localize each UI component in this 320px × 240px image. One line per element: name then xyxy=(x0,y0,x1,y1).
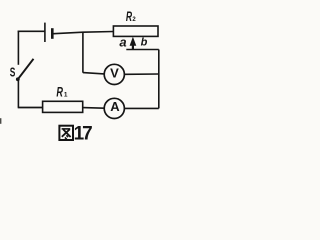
switch S xyxy=(16,59,34,81)
svg-text:R: R xyxy=(56,84,63,99)
wire voltmeter branch vertical xyxy=(82,32,84,72)
ammeter A1 xyxy=(104,98,124,118)
wire slider to right rail xyxy=(126,49,159,51)
wire bottom left to R1 xyxy=(18,107,43,109)
svg-text:S: S xyxy=(10,66,16,80)
wire R1 to ammeter xyxy=(83,107,105,110)
resistor R1 body xyxy=(43,101,83,112)
wire right rail vertical xyxy=(158,50,160,109)
wire battery to rheostat R2 xyxy=(54,32,114,34)
battery B1 xyxy=(45,23,52,42)
rheostat slider arrow xyxy=(130,37,137,50)
svg-text:1: 1 xyxy=(64,91,68,98)
rheostat R2 body xyxy=(113,26,158,36)
caption character 图 (drawn) xyxy=(59,126,73,140)
wire left rail lower xyxy=(17,81,19,108)
svg-text:V: V xyxy=(110,65,119,80)
caption text 17 xyxy=(74,123,93,144)
wire ammeter to right rail xyxy=(125,107,159,109)
wire branch to voltmeter xyxy=(83,73,104,74)
label R1 xyxy=(56,84,68,99)
scan smudge left edge xyxy=(0,118,1,124)
wire top-left horizontal (battery to left rail) xyxy=(18,30,45,32)
svg-text:7: 7 xyxy=(82,123,93,144)
voltmeter V1 xyxy=(104,64,124,84)
svg-text:a: a xyxy=(119,34,126,49)
wire left rail upper (to switch contact) xyxy=(17,31,19,65)
label R2 xyxy=(126,9,136,24)
svg-text:A: A xyxy=(110,99,120,114)
svg-text:R: R xyxy=(126,9,132,24)
wire voltmeter to right rail xyxy=(125,73,159,75)
svg-text:b: b xyxy=(141,37,148,49)
